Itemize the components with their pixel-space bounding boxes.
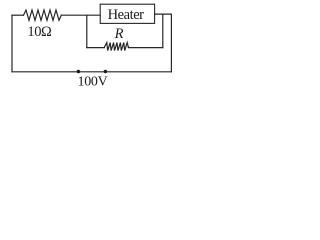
wire R-branch bottom left lead <box>87 47 105 49</box>
wire R-branch left vertical <box>86 15 88 47</box>
wire heater output <box>155 13 172 15</box>
svg-text:Heater: Heater <box>108 7 145 23</box>
wire R-branch right vertical <box>162 14 164 48</box>
wire R-branch bottom right lead <box>128 46 163 49</box>
svg-text:100V: 100V <box>78 74 108 89</box>
node junction dot left <box>77 70 81 74</box>
heater box U1 <box>100 4 154 23</box>
wire top middle segment <box>61 14 100 16</box>
svg-text:10Ω: 10Ω <box>27 24 52 40</box>
wire bottom <box>12 71 171 73</box>
resistor R1 10ohm zigzag <box>24 10 62 20</box>
resistor R zigzag <box>104 43 128 51</box>
svg-text:R: R <box>114 26 124 42</box>
wire top-left lead <box>12 14 24 16</box>
wire left vertical <box>11 15 13 72</box>
node junction dot right <box>104 70 108 74</box>
wire right vertical <box>170 14 172 72</box>
